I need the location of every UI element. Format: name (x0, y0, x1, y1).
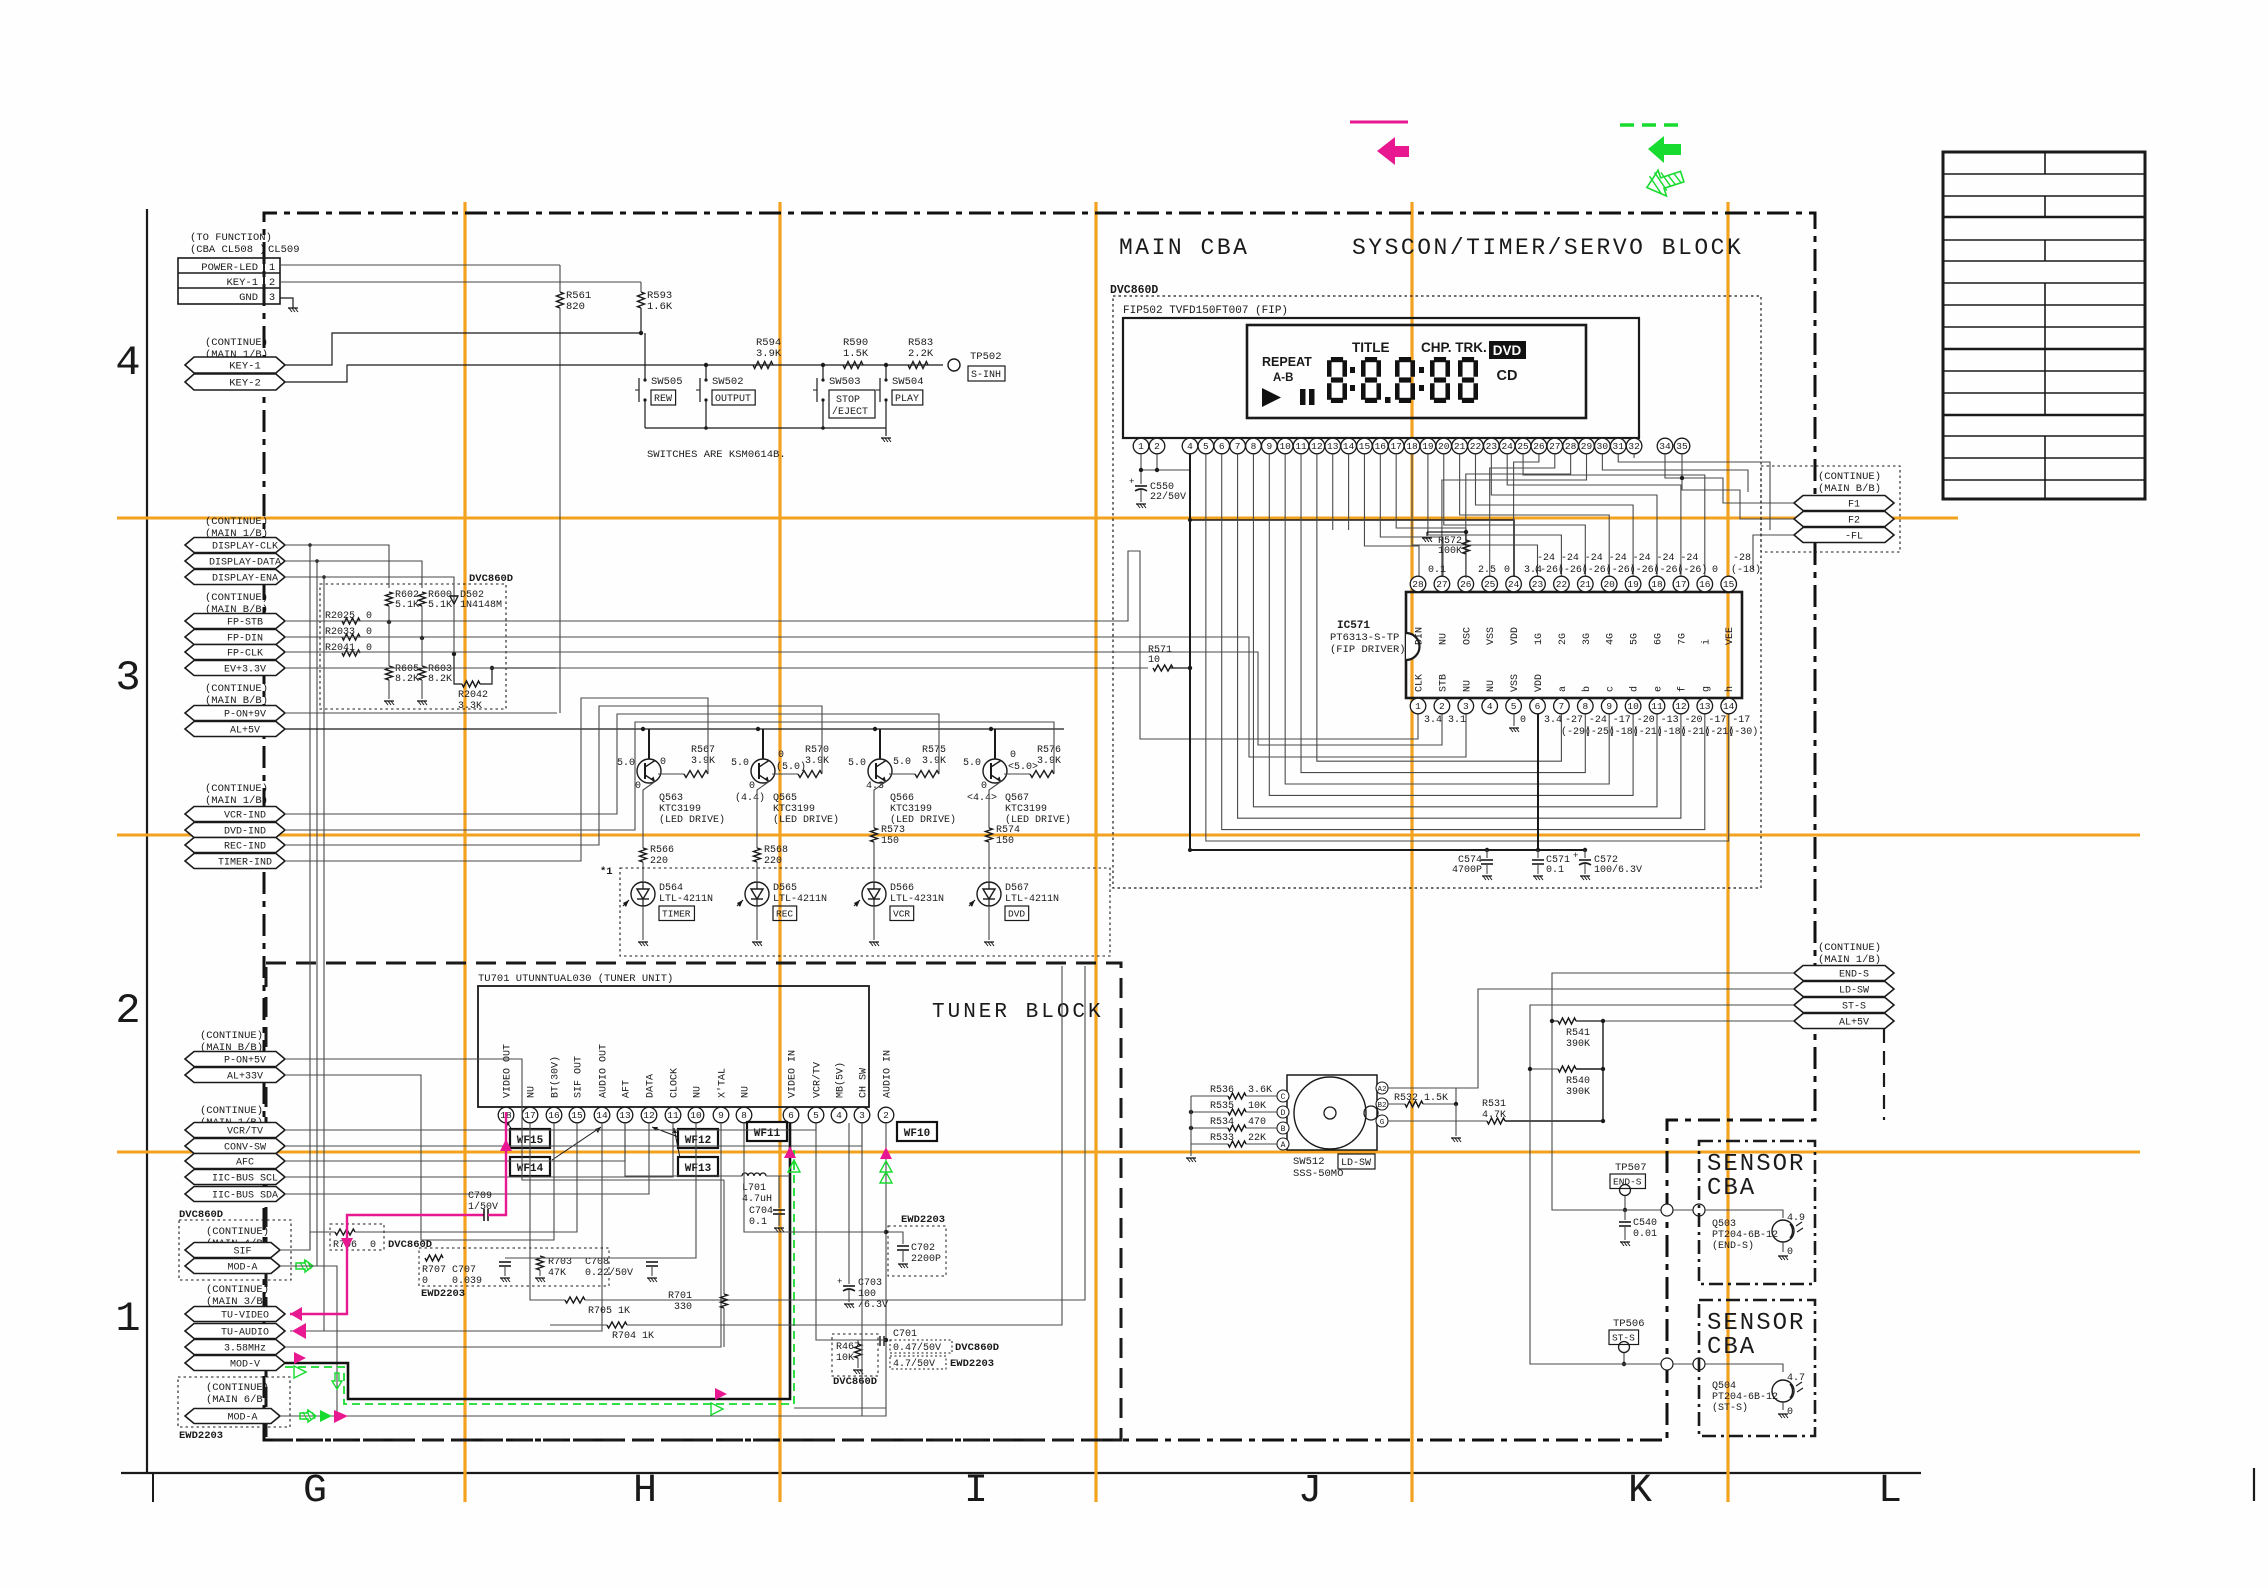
svg-text:R535: R535 (1210, 1101, 1234, 1112)
svg-text:d: d (1629, 686, 1641, 692)
svg-text:150: 150 (996, 836, 1014, 847)
label CONTINUE MAIN 1/B (display) (205, 516, 268, 540)
svg-text:TIMER: TIMER (662, 909, 691, 920)
label CONTINUE MAIN 3/B (206, 1284, 269, 1308)
svg-text:8: 8 (741, 1110, 747, 1121)
resistor R705 1K (530, 966, 1085, 1317)
svg-text:SIF: SIF (233, 1247, 251, 1258)
svg-text:TP507: TP507 (1615, 1162, 1647, 1174)
svg-text:(CONTINUE): (CONTINUE) (205, 592, 268, 604)
svg-text:DISPLAY-DATA: DISPLAY-DATA (209, 558, 281, 569)
green highlight arrow legend (1620, 125, 1686, 201)
svg-text:0: 0 (1787, 1407, 1793, 1418)
svg-text:3.6K: 3.6K (1248, 1085, 1272, 1096)
switch SW512 SSS-50MO LD-SW (1277, 1075, 1388, 1180)
connector VCR/TV (185, 1123, 285, 1138)
svg-text:7G: 7G (1677, 633, 1688, 645)
svg-text:3.4: 3.4 (1544, 715, 1562, 726)
capacitor C709 1/50V (pink path) (468, 1191, 498, 1213)
svg-text:(MAIN B/B): (MAIN B/B) (1818, 483, 1881, 495)
capacitor C708b riser wires in tuner (505, 1123, 886, 1416)
svg-text:D567: D567 (1005, 883, 1029, 894)
svg-text:0: 0 (749, 781, 755, 792)
connector KEY-1 (185, 357, 285, 373)
svg-text:-24: -24 (1585, 553, 1603, 564)
svg-text:PT204-6B-12: PT204-6B-12 (1712, 1392, 1778, 1403)
svg-text:AL+5V: AL+5V (230, 726, 260, 737)
label CONTINUE MAIN 1/B (sensors) (1818, 942, 1881, 966)
svg-text:I: I (964, 1469, 988, 1514)
svg-text:SYSCON/TIMER/SERVO BLOCK: SYSCON/TIMER/SERVO BLOCK (1352, 235, 1743, 261)
svg-text:8: 8 (1251, 441, 1257, 452)
svg-text:0: 0 (981, 781, 987, 792)
svg-text:14: 14 (1343, 441, 1355, 452)
svg-text:R568: R568 (764, 845, 788, 856)
svg-text:R540: R540 (1566, 1076, 1590, 1087)
test point TP507 END-S (1610, 1162, 1647, 1212)
svg-text:A-B: A-B (1273, 372, 1293, 384)
svg-text:NU: NU (1486, 680, 1497, 692)
connector IIC-BUS SDA (185, 1187, 285, 1202)
ground at CL509 pin 3 (280, 298, 298, 312)
svg-text:(CONTINUE): (CONTINUE) (1818, 942, 1881, 954)
svg-text:(5.0): (5.0) (776, 761, 806, 773)
label CONTINUE MAIN B/B (fp) (205, 592, 268, 616)
wire MOD-A bottom to tuner AUDIO IN (280, 1123, 892, 1423)
svg-text:0.47/50V: 0.47/50V (893, 1342, 941, 1354)
svg-text:SSS-50MO: SSS-50MO (1293, 1168, 1343, 1180)
svg-text:14: 14 (1723, 701, 1735, 712)
svg-text:9: 9 (1606, 701, 1612, 712)
svg-text:MOD-A: MOD-A (227, 1413, 257, 1424)
ground at C550 (1136, 503, 1146, 505)
svg-text:2: 2 (115, 987, 140, 1035)
connector FP-STB (185, 614, 285, 629)
svg-text:29: 29 (1581, 441, 1593, 452)
svg-text:1: 1 (1138, 441, 1144, 452)
connector P-ON+5V (185, 1052, 285, 1067)
svg-text:1.5K: 1.5K (843, 348, 869, 360)
svg-text:21: 21 (1454, 441, 1466, 452)
svg-text:EWD2203: EWD2203 (901, 1214, 945, 1226)
svg-text:VSS: VSS (1510, 674, 1521, 692)
wire AL+33V to tuner BT(30V) (285, 1075, 554, 1240)
orange grid lines (117, 202, 2140, 1502)
svg-text:J: J (1298, 1469, 1322, 1514)
svg-text:WF10: WF10 (904, 1128, 930, 1140)
svg-text:e: e (1654, 686, 1665, 692)
svg-text:27: 27 (1549, 441, 1560, 452)
wire video bottom segment to C701 riser (794, 1407, 886, 1409)
capacitor C703 100/6.3V (837, 1123, 888, 1311)
svg-text:220: 220 (764, 856, 782, 867)
wire SIF to tuner SIF OUT via R706 (280, 1123, 577, 1251)
resistor R2025 0 (325, 611, 372, 624)
connector MOD-V (185, 1356, 285, 1371)
svg-text:3: 3 (859, 1110, 865, 1121)
svg-text:PT204-6B-12: PT204-6B-12 (1712, 1230, 1778, 1241)
svg-text:0: 0 (778, 750, 784, 761)
resistor R561 820 (557, 265, 592, 713)
svg-text:R574: R574 (996, 825, 1020, 836)
FIP pin numbers 1-35 (1133, 438, 1690, 454)
svg-text:3: 3 (269, 292, 275, 304)
SENSOR CBA box 2 (ST-S) (1699, 1300, 1815, 1436)
svg-text:R566: R566 (650, 845, 674, 856)
green hatched arrow at MOD-A (296, 1260, 313, 1272)
svg-text:2: 2 (1439, 701, 1445, 712)
svg-text:23: 23 (1486, 441, 1498, 452)
resistor R590 1.5K (843, 337, 869, 369)
svg-text:TP506: TP506 (1613, 1318, 1645, 1330)
TU701 pin numbers and names (498, 1044, 894, 1123)
svg-text:5.0: 5.0 (617, 758, 635, 769)
svg-text:VIDEO IN: VIDEO IN (788, 1050, 799, 1098)
switch SW504 PLAY (876, 363, 924, 428)
svg-text:OUTPUT: OUTPUT (715, 394, 751, 405)
svg-text:DVD: DVD (1493, 343, 1522, 358)
svg-text:34: 34 (1659, 441, 1671, 452)
resistor R534 470 (1189, 1117, 1277, 1131)
svg-text:-27: -27 (1565, 715, 1583, 726)
connector AFC (185, 1154, 285, 1169)
connector DISPLAY-CLK (185, 538, 285, 553)
svg-text:0: 0 (1504, 565, 1510, 576)
svg-text:TU701 UTUNNTUAL030 (TUNER UN: TU701 UTUNNTUAL030 (TUNER UNIT) (478, 973, 673, 985)
switch SW503 STOP/EJECT (813, 363, 875, 428)
svg-text:KTC3199: KTC3199 (773, 804, 815, 815)
svg-text:B2: B2 (1377, 1102, 1386, 1110)
svg-text:(CONTINUE): (CONTINUE) (206, 1382, 269, 1394)
wire SW512 G to ground via R531 bus (1387, 1120, 1389, 1122)
svg-text:(LED DRIVE): (LED DRIVE) (773, 814, 839, 826)
svg-text:R2025: R2025 (325, 611, 355, 622)
green pink arrows at AUDIO IN riser (880, 1147, 892, 1159)
svg-text:R573: R573 (881, 825, 905, 836)
svg-text:+: + (1129, 477, 1134, 487)
wire VCR-IND to Q566 base (285, 714, 939, 814)
svg-text:(-18): (-18) (1731, 564, 1761, 576)
wire FP-STB bus to IC571 pin 1 (285, 551, 1418, 739)
svg-text:Q566: Q566 (890, 793, 914, 804)
svg-text:(CBA CL508 ): (CBA CL508 ) (190, 244, 266, 256)
svg-text:<5.0>: <5.0> (1008, 762, 1038, 773)
svg-text:CL509: CL509 (268, 244, 300, 256)
photo sensor Q504 PT204-6B-12 ST-S (1712, 1373, 1805, 1418)
svg-text:g: g (1701, 686, 1712, 692)
svg-text:5.0: 5.0 (963, 758, 981, 769)
svg-text:CBA: CBA (1707, 1175, 1756, 1202)
svg-text:1: 1 (1415, 701, 1421, 712)
svg-text:DVC860D: DVC860D (469, 573, 513, 585)
ground under D567 (984, 941, 994, 943)
svg-text:SW503: SW503 (829, 376, 861, 388)
svg-text:330: 330 (674, 1302, 692, 1313)
svg-text:MAIN CBA: MAIN CBA (1119, 235, 1249, 261)
EWD2203 dotted box (MOD-A bottom) (178, 1377, 290, 1442)
svg-text:R533: R533 (1210, 1133, 1234, 1144)
svg-text:TIMER-IND: TIMER-IND (218, 858, 272, 869)
svg-text:D564: D564 (659, 883, 683, 894)
svg-text:SWITCHES ARE KSM0614B.: SWITCHES ARE KSM0614B. (647, 449, 786, 461)
resistor R593 1.6K (638, 282, 673, 335)
svg-text:VCR/TV: VCR/TV (812, 1062, 824, 1098)
svg-text:(-30): (-30) (1728, 726, 1758, 738)
ground at R605 (384, 700, 394, 702)
resistor R531 4.7K (1388, 1099, 1605, 1124)
connector TIMER-IND (185, 854, 285, 869)
svg-text:0: 0 (422, 1276, 428, 1287)
resistor R701 330 (668, 1180, 728, 1347)
svg-text:(LED DRIVE): (LED DRIVE) (659, 814, 725, 826)
FIP502 fluorescent display module (1123, 305, 1639, 438)
capacitor C702 2200P in EWD2203 box (884, 1214, 946, 1276)
resistor R533 22K (1191, 1133, 1277, 1147)
svg-text:KEY-1: KEY-1 (229, 361, 261, 373)
svg-text:SW512: SW512 (1293, 1156, 1325, 1168)
svg-text:1/50V: 1/50V (468, 1201, 498, 1213)
wire EV+3.3V to R571 (285, 667, 1148, 669)
svg-text:-17: -17 (1613, 715, 1631, 726)
svg-text:2G: 2G (1558, 633, 1569, 645)
svg-text:LTL-4211N: LTL-4211N (773, 894, 827, 905)
svg-text:K: K (1628, 1469, 1652, 1514)
resistor R2041 0 (325, 643, 372, 656)
svg-text:c: c (1606, 686, 1617, 692)
svg-text:Q504: Q504 (1712, 1381, 1736, 1392)
svg-text:MOD-A: MOD-A (227, 1263, 257, 1274)
svg-text:SIF OUT: SIF OUT (574, 1056, 585, 1098)
EWD2203 dotted box R707 C707 R703 C708 (419, 1248, 609, 1300)
svg-text:4: 4 (115, 339, 140, 387)
svg-text:3.9K: 3.9K (756, 348, 782, 360)
svg-text:4.7/50V: 4.7/50V (893, 1358, 935, 1370)
svg-text:390K: 390K (1566, 1039, 1590, 1050)
green pink arrows at pin 6 riser (784, 1146, 800, 1172)
svg-text:VSS: VSS (1486, 627, 1497, 645)
svg-text:VEE: VEE (1725, 627, 1736, 645)
svg-text:R701: R701 (668, 1291, 692, 1302)
svg-text:16: 16 (1699, 579, 1711, 590)
svg-text:MB(5V): MB(5V) (835, 1062, 847, 1098)
SENSOR CBA box 1 (END-S) (1699, 1141, 1815, 1284)
svg-text:VIDEO OUT: VIDEO OUT (503, 1044, 514, 1098)
svg-text:DVD: DVD (1008, 909, 1025, 920)
svg-text:6: 6 (1535, 701, 1541, 712)
svg-text:VDD: VDD (1534, 674, 1545, 692)
svg-text:0.1: 0.1 (749, 1217, 767, 1228)
svg-text:G: G (303, 1469, 327, 1514)
svg-text:(-26): (-26) (1677, 564, 1707, 576)
ground at R53x bus (1186, 1096, 1196, 1162)
LED D567 LTL-4211N DVD (969, 882, 1059, 940)
wire 3.58MHz to tuner X'TAL (285, 1123, 721, 1347)
svg-text:DVC860D: DVC860D (833, 1376, 877, 1388)
svg-text:-20: -20 (1685, 715, 1703, 726)
svg-text:R534: R534 (1210, 1117, 1234, 1128)
switch bottom rail and ground (645, 426, 891, 442)
svg-text:10: 10 (1279, 441, 1291, 452)
svg-text:3.9K: 3.9K (805, 756, 829, 767)
waveform label WF11 (747, 1122, 787, 1141)
svg-text:+: + (1573, 851, 1578, 861)
svg-text:100/6.3V: 100/6.3V (1594, 864, 1642, 876)
svg-text:NU: NU (1462, 680, 1473, 692)
svg-text:2: 2 (269, 277, 275, 289)
sheet border frame (115, 209, 2254, 1514)
svg-text:4G: 4G (1606, 633, 1617, 645)
svg-text:CLOCK: CLOCK (670, 1068, 681, 1098)
svg-text:2.5: 2.5 (1478, 565, 1496, 576)
resistor R600 5.1K (419, 590, 453, 640)
svg-text:Q503: Q503 (1712, 1219, 1736, 1230)
IC571 pin 5 ground (1509, 714, 1519, 732)
wire AL+5V to R541 (1603, 1020, 1794, 1022)
svg-text:(CONTINUE): (CONTINUE) (206, 1226, 269, 1238)
svg-text:AFC: AFC (236, 1158, 254, 1169)
svg-text:13: 13 (619, 1110, 631, 1121)
diode D502 1N4148M (450, 590, 502, 656)
capacitor C708 0.22/50V (585, 1257, 658, 1282)
connector DISPLAY-ENA (185, 570, 285, 585)
resistor R583 2.2K (908, 337, 934, 369)
svg-text:WF13: WF13 (685, 1163, 712, 1175)
svg-text:-13: -13 (1661, 715, 1679, 726)
svg-text:22: 22 (1556, 579, 1568, 590)
svg-text:22/50V: 22/50V (1150, 491, 1186, 503)
svg-text:2: 2 (1154, 441, 1160, 452)
svg-text:(CONTINUE): (CONTINUE) (1818, 471, 1881, 483)
wire ST-S down to TP506 (1530, 1005, 1794, 1364)
svg-text:R2033: R2033 (325, 627, 355, 638)
resistor R541 390K (1550, 1018, 1605, 1050)
svg-text:F2: F2 (1848, 516, 1860, 527)
svg-text:Q567: Q567 (1005, 793, 1029, 804)
svg-text:-17: -17 (1732, 715, 1750, 726)
svg-text:0: 0 (366, 627, 372, 638)
svg-text:R570: R570 (805, 745, 829, 756)
transistor Q565 KTC3199 LED DRIVE (731, 729, 839, 826)
svg-text:28: 28 (1412, 579, 1424, 590)
resistor R575 3.9K (base) (889, 745, 946, 778)
connector F2 (1794, 512, 1894, 527)
waveform label WF13 (678, 1157, 718, 1176)
svg-text:END-S: END-S (1613, 1177, 1642, 1188)
resistor R567 3.9K (base) (658, 745, 715, 778)
svg-text:EWD2203: EWD2203 (950, 1358, 994, 1370)
connector MOD-A (bottom) (185, 1409, 280, 1424)
svg-text:11: 11 (1295, 441, 1307, 452)
svg-text:h: h (1724, 686, 1736, 692)
resistor R574 150 (emitter) (986, 782, 1021, 882)
svg-text:25: 25 (1484, 579, 1496, 590)
svg-text:470: 470 (1248, 1117, 1266, 1128)
svg-text:-24: -24 (1657, 553, 1675, 564)
connector -FL (1794, 528, 1894, 543)
wire FIP pins 15-17 to IC571 top pins 28-26 (1333, 454, 1466, 578)
svg-text:0.1: 0.1 (1546, 865, 1564, 876)
connector FP-CLK (185, 645, 285, 660)
svg-text:C708: C708 (585, 1257, 609, 1268)
wire VCR/TV to tuner pin 5 (285, 1123, 816, 1130)
svg-text:26: 26 (1533, 441, 1545, 452)
connector ST-S (1794, 998, 1894, 1013)
svg-text:C709: C709 (468, 1191, 492, 1202)
MAIN CBA block dash-dot border (264, 213, 1815, 1440)
svg-text:-20: -20 (1637, 715, 1655, 726)
connector AL+5V (sensor) (1794, 1014, 1894, 1029)
svg-text:10: 10 (690, 1110, 702, 1121)
IC571 top pin numbers 28-15 (1410, 576, 1736, 645)
svg-text:i: i (1700, 639, 1712, 645)
svg-text:TITLE: TITLE (1352, 340, 1390, 355)
svg-text:TUNER BLOCK: TUNER BLOCK (932, 1001, 1104, 1024)
label CONTINUE MAIN B/B (power) (205, 683, 268, 707)
svg-text:11: 11 (667, 1110, 679, 1121)
svg-text:REC-IND: REC-IND (224, 842, 266, 853)
svg-text:0: 0 (660, 757, 666, 768)
svg-text:(CONTINUE): (CONTINUE) (205, 783, 268, 795)
svg-text:SW504: SW504 (892, 376, 924, 388)
connector REC-IND (185, 838, 285, 853)
svg-text:390K: 390K (1566, 1087, 1590, 1098)
DVC860D dotted box (display resistors) (320, 584, 506, 709)
svg-text:21: 21 (1580, 579, 1592, 590)
svg-text:16: 16 (1375, 441, 1387, 452)
resistor R572 100K and ground (1422, 530, 1470, 578)
svg-text:150: 150 (881, 836, 899, 847)
svg-text:X'TAL: X'TAL (717, 1068, 729, 1098)
svg-text:(CONTINUE): (CONTINUE) (205, 683, 268, 695)
resistor R540 390K (1528, 1066, 1605, 1098)
svg-text:G: G (1380, 1119, 1385, 1127)
connector EV+3.3V (185, 661, 285, 676)
wire REC-IND to Q565 base (285, 706, 822, 845)
connector IIC-BUS SCL (185, 1170, 285, 1185)
svg-text:-FL: -FL (1845, 532, 1863, 543)
svg-text:LTL-4231N: LTL-4231N (890, 894, 944, 905)
svg-text:TP502: TP502 (970, 351, 1002, 363)
capacitor C572 100/6.3V (1573, 850, 1642, 880)
capacitor C550 22/50V (1129, 477, 1186, 503)
svg-text:<4.4>: <4.4> (967, 793, 997, 804)
svg-text:NU: NU (1438, 633, 1449, 645)
resistor R568 220 (emitter) (754, 782, 789, 882)
switch SW502 OUTPUT (696, 363, 755, 428)
tuner unit TU701 UTUNNTUAL030 (478, 973, 869, 1107)
connector TU-VIDEO (185, 1307, 285, 1322)
pink highlight arrow legend (1350, 122, 1409, 165)
DVC860D dotted box around FIP and IC571 (1113, 296, 1761, 888)
svg-text:1G: 1G (1534, 633, 1545, 645)
svg-text:6: 6 (788, 1110, 794, 1121)
connector P-ON+9V (185, 706, 285, 721)
wire R541/R540 junction down to R531 (1602, 1021, 1604, 1121)
svg-text:3.9K: 3.9K (1037, 756, 1061, 767)
connector VCR-IND (185, 807, 285, 822)
IC571 bottom pin numbers 1-14 (1410, 674, 1736, 714)
svg-text:EWD2203: EWD2203 (179, 1430, 223, 1442)
wire ST-S into sensor box 2 (1614, 1358, 1783, 1372)
svg-text:F1: F1 (1848, 500, 1860, 511)
svg-text:-24: -24 (1561, 553, 1579, 564)
wire FIP pins 26-29 to IC571 pins 24-27 (1442, 454, 1587, 578)
svg-text:100: 100 (858, 1289, 876, 1300)
svg-text:R536: R536 (1210, 1085, 1234, 1096)
svg-text:220: 220 (650, 856, 668, 867)
svg-text:H: H (633, 1469, 657, 1514)
svg-text:DVD-IND: DVD-IND (224, 827, 266, 838)
